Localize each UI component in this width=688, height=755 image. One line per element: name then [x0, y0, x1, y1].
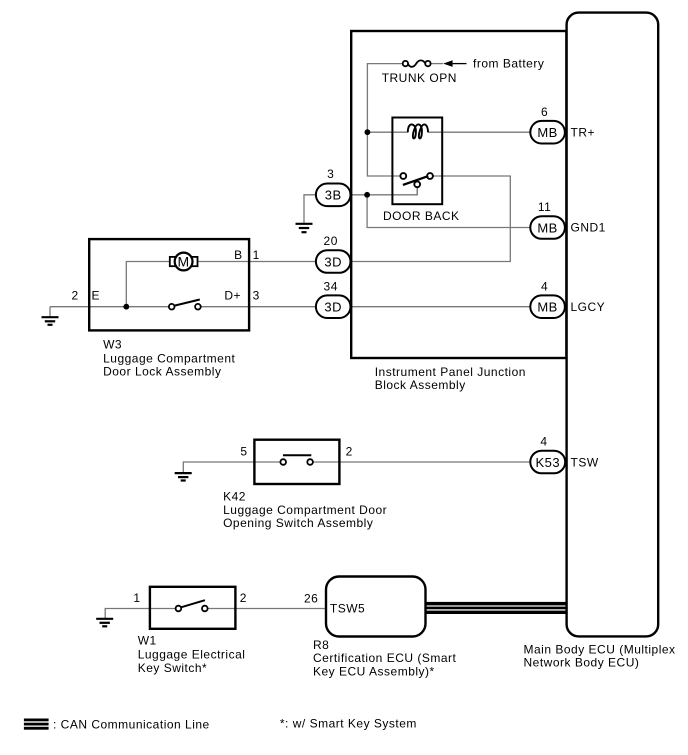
svg-text:6: 6	[541, 105, 548, 119]
K42 switch	[280, 455, 313, 465]
svg-text:B: B	[234, 248, 243, 262]
wire K42 row: ground to switch and switch to K53	[183, 462, 530, 473]
wire W3 B row to 3D20	[249, 261, 316, 263]
svg-text:Block Assembly: Block Assembly	[375, 378, 466, 392]
svg-text:Instrument Panel Junction: Instrument Panel Junction	[375, 365, 526, 379]
relay coil	[408, 124, 428, 138]
svg-text:TSW5: TSW5	[330, 601, 365, 615]
wire fuse right lead to arrow	[431, 63, 444, 65]
wire W3 D+ row to 3D34	[201, 306, 316, 308]
svg-text:Network Body ECU): Network Body ECU)	[524, 656, 640, 670]
relay DOOR BACK box	[392, 118, 442, 205]
svg-text:MB: MB	[537, 220, 558, 235]
svg-text:3: 3	[327, 167, 334, 181]
legend CAN icon	[24, 719, 49, 730]
svg-text:LGCY: LGCY	[571, 300, 606, 314]
svg-text:11: 11	[538, 200, 551, 214]
svg-text:34: 34	[324, 279, 338, 293]
connector K53 pin 4	[530, 435, 565, 474]
svg-text:Key ECU Assembly)*: Key ECU Assembly)*	[313, 665, 435, 679]
svg-text:Certification ECU (Smart: Certification ECU (Smart	[313, 651, 457, 665]
svg-text:: CAN Communication Line: : CAN Communication Line	[53, 718, 210, 732]
svg-text:W1: W1	[138, 634, 157, 648]
wire coil row: branch dot to coil and coil to MB6	[367, 131, 530, 133]
svg-text:M: M	[178, 253, 190, 269]
svg-text:Luggage Electrical: Luggage Electrical	[138, 647, 246, 661]
svg-text:4: 4	[541, 279, 548, 293]
node: W3 E junction dot	[123, 304, 129, 310]
motor M in W3	[170, 253, 198, 271]
W3 Luggage Compartment Door Lock Assembly box	[89, 239, 249, 330]
svg-text:W3: W3	[103, 337, 122, 351]
svg-text:Luggage Compartment: Luggage Compartment	[103, 351, 235, 365]
R8 Certification ECU box	[326, 577, 426, 637]
fuse TRUNK OPN	[403, 60, 431, 66]
wire W3 E row: ground to switch left contact	[50, 307, 169, 318]
ground (W3 E)	[42, 317, 59, 325]
svg-text:GND1: GND1	[571, 221, 606, 235]
Instrument Panel Junction Block Assembly box	[351, 31, 566, 358]
svg-text:Key Switch*: Key Switch*	[138, 661, 208, 675]
W1 switch	[176, 600, 208, 611]
svg-text:20: 20	[324, 234, 338, 248]
wire W3 motor leads	[126, 262, 249, 307]
svg-text:MB: MB	[537, 125, 558, 140]
svg-text:TSW: TSW	[571, 455, 599, 469]
wire 3D34 to MB4 LGCY	[351, 306, 531, 308]
svg-text:K53: K53	[535, 455, 560, 470]
svg-text:3: 3	[253, 289, 260, 303]
svg-text:4: 4	[540, 435, 547, 449]
svg-text:Opening Switch Assembly: Opening Switch Assembly	[223, 516, 373, 530]
svg-text:Main Body ECU (Multiplex: Main Body ECU (Multiplex	[524, 643, 676, 657]
wire 3B junction down to MB11 GND1	[367, 195, 530, 228]
svg-text:K42: K42	[223, 489, 246, 503]
connector MB pin 4	[530, 279, 565, 318]
svg-text:Door Lock Assembly: Door Lock Assembly	[103, 365, 221, 379]
svg-text:Luggage Compartment Door: Luggage Compartment Door	[223, 503, 387, 517]
connector MB pin 6	[530, 105, 565, 144]
svg-text:2: 2	[72, 289, 79, 303]
W3 door lock switch	[169, 300, 201, 310]
svg-text:TRUNK OPN: TRUNK OPN	[382, 71, 457, 85]
svg-text:MB: MB	[537, 300, 558, 315]
wire 3B row to relay middle contact	[351, 187, 418, 195]
svg-text:from Battery: from Battery	[473, 56, 544, 70]
wire W1 row: ground to switch and switch to R8	[105, 609, 326, 619]
svg-text:E: E	[92, 289, 101, 303]
svg-text:R8: R8	[313, 638, 329, 652]
svg-text:3D: 3D	[324, 300, 342, 315]
svg-text:1: 1	[253, 248, 260, 262]
arrow from Battery	[443, 60, 466, 67]
wire relay switch right contact to 3D20 (right, down, left)	[351, 176, 511, 262]
connector 3B	[316, 167, 351, 206]
svg-text:26: 26	[304, 591, 318, 605]
svg-text:2: 2	[346, 445, 353, 459]
svg-text:1: 1	[133, 591, 140, 605]
svg-text:DOOR BACK: DOOR BACK	[383, 209, 460, 223]
svg-text:TR+: TR+	[571, 126, 596, 140]
svg-text:3D: 3D	[324, 254, 342, 269]
wire 3B to left ground	[304, 195, 316, 224]
node: coil branch junction dot	[365, 129, 371, 135]
svg-text:5: 5	[240, 445, 247, 459]
svg-text:3B: 3B	[325, 188, 342, 203]
svg-text:D+: D+	[224, 289, 241, 303]
connector 3D pin 34	[316, 279, 351, 318]
ground (3B)	[296, 224, 313, 232]
Main Body ECU box	[567, 13, 659, 637]
W1 Luggage Electrical Key Switch box	[150, 587, 236, 629]
K42 Luggage Compartment Door Opening Switch Assembly box	[254, 440, 339, 484]
ground (W1)	[96, 619, 113, 627]
svg-text:*: w/ Smart Key System: *: w/ Smart Key System	[280, 716, 417, 730]
relay switch	[400, 173, 433, 195]
node: 3B junction dot	[364, 192, 370, 198]
CAN communication line (triple bar) R8 to Main Body ECU	[426, 602, 567, 614]
ground (K42)	[175, 473, 192, 480]
connector MB pin 11	[530, 200, 565, 239]
wire battery feed: fuse left lead, down, to relay switch left contact	[367, 64, 402, 176]
connector 3D pin 20	[316, 234, 351, 273]
svg-text:2: 2	[240, 591, 247, 605]
